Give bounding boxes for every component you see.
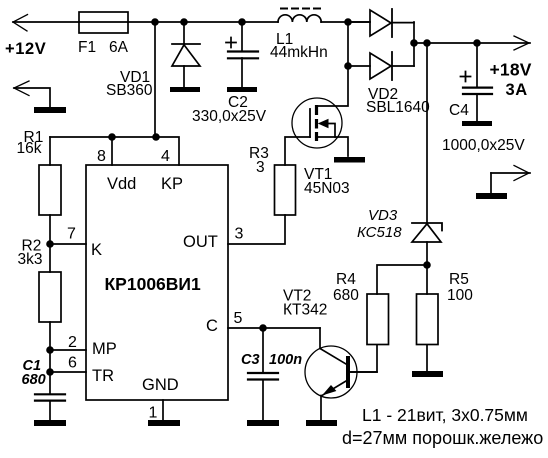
label R4 680 [333, 271, 359, 304]
diode VD1 [172, 22, 200, 87]
node pin6 [46, 368, 54, 376]
resistor R4 [351, 265, 427, 372]
ground (VD1) [170, 87, 200, 92]
resistor R2 [39, 244, 61, 394]
svg-text:L1 - 21вит, 3х0.75мм: L1 - 21вит, 3х0.75мм [362, 405, 528, 425]
capacitor C3 [248, 328, 278, 420]
input arrow +12V [13, 15, 28, 32]
capacitor C2 [226, 22, 258, 87]
input return arrow (left, to ground) [14, 81, 50, 107]
diode VD2 (top) [370, 9, 414, 37]
svg-text:3k3: 3k3 [18, 251, 43, 268]
svg-text:44mkHn: 44mkHn [270, 44, 328, 61]
svg-text:GND: GND [142, 376, 179, 394]
svg-text:3A: 3A [506, 81, 528, 99]
node top rail / C2 [238, 18, 246, 26]
svg-text:5: 5 [234, 310, 243, 327]
svg-text:2: 2 [68, 334, 77, 351]
wire L1 to diodes [348, 22, 370, 66]
wire pin6 TR [50, 371, 86, 373]
label L1 44mkHn [270, 31, 328, 61]
svg-text:R4: R4 [336, 271, 356, 288]
wire pin1 GND [162, 400, 164, 420]
resistor R1 [39, 137, 61, 244]
label VT1 45N03 [304, 166, 350, 197]
output arrow +18V [514, 36, 529, 50]
wire pin2 MP [50, 349, 86, 351]
ground (VT1 source) [334, 157, 365, 163]
inductor L1 [278, 9, 322, 23]
ground (C3) [247, 420, 279, 426]
svg-text:MP: MP [92, 340, 117, 358]
svg-text:100n: 100n [269, 352, 302, 368]
svg-text:R5: R5 [449, 271, 469, 288]
ground (C4) [462, 121, 492, 126]
label VT2 KT342 [283, 288, 327, 319]
svg-text:680: 680 [22, 372, 46, 388]
svg-text:+18V: +18V [490, 60, 532, 80]
ground (output return, right) [476, 166, 530, 200]
node output / diodes [410, 39, 418, 47]
label R5 100 [447, 271, 473, 304]
ground (pin1) [148, 420, 180, 426]
node pin5 / C3 [259, 324, 267, 332]
svg-text:OUT: OUT [183, 233, 218, 251]
svg-text:SBL1640: SBL1640 [366, 99, 430, 116]
svg-text:3: 3 [235, 226, 244, 243]
wire +12V top rail [13, 21, 370, 23]
ground (R5) [412, 371, 443, 377]
svg-text:КР1006ВИ1: КР1006ВИ1 [105, 274, 202, 294]
note L1 winding text [342, 405, 543, 448]
svg-text:VD3: VD3 [368, 207, 398, 224]
svg-text:K: K [91, 241, 102, 259]
wire pin5 C [228, 327, 320, 329]
wire Vdd/KP supply [50, 22, 179, 165]
wire +18V output rail [414, 42, 530, 44]
label R1 16k [17, 129, 44, 157]
svg-text:1000,0x25V: 1000,0x25V [442, 137, 525, 154]
svg-text:КС518: КС518 [357, 224, 402, 241]
label C1 680 [22, 358, 46, 388]
diode VD2 (bottom) [370, 52, 414, 80]
node output / VD3 [423, 39, 431, 47]
label +18V 3A [490, 60, 532, 100]
transistor VT1 (MOSFET) [285, 66, 348, 165]
svg-text:680: 680 [333, 287, 359, 304]
svg-text:d=27мм порошк.жележо: d=27мм порошк.жележо [342, 428, 543, 448]
svg-text:C: C [206, 317, 218, 335]
svg-text:+12V: +12V [5, 40, 46, 58]
node top rail / VD1 [180, 18, 188, 26]
svg-text:КТ342: КТ342 [283, 302, 327, 319]
node VD3 / divider [423, 261, 431, 269]
svg-text:45N03: 45N03 [304, 180, 350, 197]
ground (input return) [34, 107, 66, 113]
label VD3 KC518 [357, 207, 402, 241]
label C3 100n [241, 352, 302, 368]
capacitor C1 [35, 394, 65, 420]
timer U1 KP1006VI1 box [86, 165, 228, 400]
node diode branch [344, 62, 352, 70]
ground (VT2 emitter) [306, 420, 337, 426]
label VD2 SBL1640 [366, 86, 430, 116]
node pin2 [46, 346, 54, 354]
svg-text:100: 100 [447, 287, 473, 304]
wire pin7 K [50, 243, 86, 245]
node R1/R2/pin7 [46, 240, 54, 248]
node output / C4 [473, 39, 481, 47]
ground (C1) [34, 420, 66, 426]
svg-text:7: 7 [67, 226, 76, 243]
node top rail / L1 right [344, 18, 352, 26]
label R3 3 [249, 145, 269, 176]
resistor R3 [228, 165, 296, 244]
svg-text:C3: C3 [241, 352, 260, 368]
svg-text:330,0x25V: 330,0x25V [192, 108, 267, 125]
svg-text:TR: TR [92, 367, 114, 385]
svg-text:SB360: SB360 [106, 82, 153, 99]
transistor VT2 [305, 328, 377, 420]
label C4 1000,0x25V [442, 102, 525, 154]
svg-text:16k: 16k [17, 140, 42, 157]
label VD1 SB360 [106, 69, 153, 99]
svg-text:F1 6A: F1 6A [78, 39, 129, 56]
label R2 3k3 [18, 238, 43, 269]
fuse F1 [79, 12, 128, 33]
svg-text:Vdd: Vdd [107, 175, 136, 193]
zener VD3 [412, 43, 442, 265]
label C2 330,0x25V [192, 94, 267, 125]
ground (C2) [227, 87, 257, 92]
node top rail / Vdd drop [151, 18, 159, 26]
wire diode outputs join [413, 22, 415, 66]
svg-text:1: 1 [149, 405, 158, 422]
svg-text:8: 8 [97, 148, 106, 165]
node supply drop [152, 133, 160, 141]
svg-text:C4: C4 [449, 102, 469, 119]
node supply / pin8 [108, 133, 116, 141]
svg-text:4: 4 [161, 148, 170, 165]
svg-text:KP: KP [161, 175, 183, 193]
capacitor C4 [461, 43, 493, 121]
svg-text:6: 6 [68, 355, 77, 372]
resistor R5 [417, 265, 439, 371]
svg-text:3: 3 [256, 159, 265, 176]
